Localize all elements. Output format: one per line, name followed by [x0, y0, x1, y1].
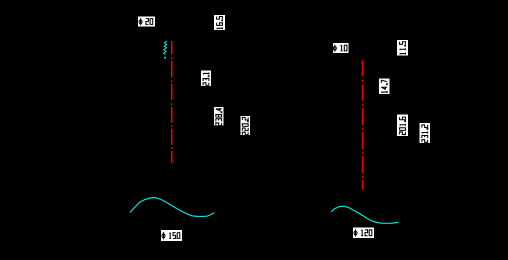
label depth 14.7 (G) — [379, 79, 390, 95]
wire ground surface curve right — [331, 206, 399, 223]
label depth 11.5 (F) — [397, 40, 408, 56]
label depth 16.5 (B) — [214, 15, 225, 30]
label phi-120 bottom right — [353, 228, 374, 239]
label elev 201.6 (H) — [397, 115, 408, 137]
label elev 220.2 (E) — [241, 116, 251, 135]
label elev 231.2 (I) — [420, 123, 431, 143]
label phi-10 top right — [333, 43, 349, 53]
wire centerline left borehole — [171, 41, 173, 164]
label elev 238.4 (D) — [214, 107, 224, 126]
label phi-20 top left — [138, 17, 155, 27]
wire ground surface curve left — [130, 198, 214, 217]
wire centerline right borehole — [362, 60, 364, 189]
node water dot left — [164, 57, 166, 59]
label phi-150 bottom left — [161, 230, 182, 241]
label depth 23.1 (C) — [201, 71, 211, 87]
wire water-level zigzag left — [164, 41, 167, 54]
